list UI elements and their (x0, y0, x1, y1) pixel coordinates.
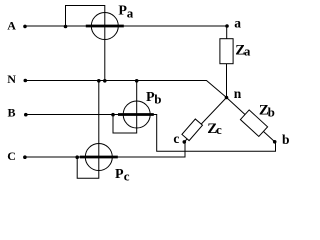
wire: phase line C (25, 142, 185, 157)
wattmeter Pa voltage-coil loop wire (66, 6, 105, 81)
wire node n to node c (184, 98, 226, 142)
wattmeter Pa circle (91, 13, 118, 40)
wire Za to node n (226, 64, 228, 98)
wire node a to Za (226, 26, 228, 39)
svg-text:a: a (127, 5, 134, 20)
wire: phase line B (26, 115, 276, 152)
wire: neutral line N (25, 81, 226, 98)
wattmeter Pc current coil (thick line) (80, 156, 118, 159)
junction dot on N for Pc (97, 79, 101, 83)
svg-text:A: A (7, 19, 16, 33)
impedance Zc (182, 119, 203, 141)
svg-text:a: a (234, 16, 241, 31)
wattmeter Pc circle (85, 144, 112, 171)
terminal dot N (24, 79, 28, 83)
junction dot on C for Pc (75, 155, 79, 159)
svg-text:C: C (7, 149, 16, 163)
junction dot on B for Pb (111, 113, 115, 117)
svg-text:a: a (244, 44, 251, 59)
wire node n to node b (227, 98, 275, 142)
wattmeter Pa current coil (thick line) (86, 25, 124, 28)
wattmeter Pb circle (123, 101, 150, 128)
svg-text:b: b (268, 105, 275, 120)
svg-text:b: b (282, 132, 290, 147)
svg-text:c: c (124, 169, 130, 184)
junction dot on A for Pa (64, 25, 68, 29)
node n dot (225, 96, 229, 100)
junction dot on N for Pa (103, 79, 107, 83)
impedance Za (220, 39, 233, 64)
svg-text:c: c (173, 131, 179, 146)
svg-text:B: B (8, 106, 16, 120)
node a dot (225, 24, 229, 28)
node b dot (273, 140, 277, 144)
wire: phase line A (25, 25, 227, 27)
terminal dot A (23, 25, 27, 29)
junction dot on N for Pb (135, 79, 139, 83)
terminal dot B (24, 113, 28, 117)
svg-text:P: P (115, 167, 124, 182)
wattmeter Pb voltage-coil wire from N (113, 81, 137, 134)
svg-text:n: n (234, 86, 242, 101)
svg-text:b: b (154, 92, 161, 107)
wattmeter Pb current coil (thick line) (118, 113, 154, 116)
svg-text:N: N (7, 72, 16, 86)
node c dot (183, 140, 187, 144)
impedance Zb (240, 110, 267, 136)
terminal dot C (23, 155, 27, 159)
wattmeter Pc voltage-coil wire from N (77, 81, 99, 179)
svg-text:c: c (216, 122, 222, 137)
